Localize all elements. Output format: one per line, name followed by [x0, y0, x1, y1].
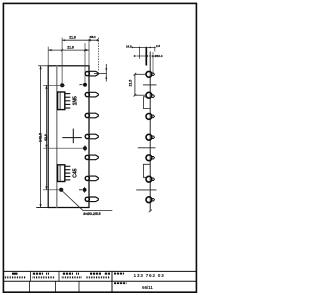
top dim row 1	[62, 39, 99, 41]
title microtext row 1	[12, 273, 110, 275]
extension arms left	[43, 85, 87, 190]
rivet C1	[59, 188, 63, 192]
title microtext row 2 (dotted)	[5, 276, 111, 278]
svg-text:3×Ø3.2/5.5: 3×Ø3.2/5.5	[83, 212, 100, 216]
side circle S1	[146, 71, 155, 77]
side circle S4	[146, 134, 155, 140]
terminal T6	[85, 176, 98, 181]
svg-text:21.8: 21.8	[69, 35, 76, 39]
divider main	[111, 271, 113, 292]
side top dim row 2	[137, 47, 152, 58]
plate bottom edge extended left	[36, 207, 48, 209]
leader to rivet callout	[62, 191, 113, 211]
side thin line to tab	[152, 52, 154, 73]
svg-text:2.3: 2.3	[156, 44, 160, 48]
divider d3	[78, 281, 80, 292]
terminal T7	[85, 197, 98, 202]
svg-text:62.9: 62.9	[44, 134, 48, 141]
part number cell microtext	[114, 273, 125, 275]
side rivet line 1	[143, 84, 157, 86]
left dim B (chained)	[45, 85, 47, 190]
terminal T5	[85, 155, 98, 160]
side circle S5	[146, 155, 155, 161]
terminal T4	[85, 134, 98, 139]
connector X1 box	[58, 92, 65, 110]
rivet C2	[79, 187, 87, 193]
divider d2	[55, 281, 57, 292]
side strip end slash	[149, 210, 152, 213]
svg-text:66/11: 66/11	[142, 285, 153, 290]
lower cell microtext	[114, 282, 127, 284]
side dark band top	[145, 47, 147, 65]
rivet B1	[83, 145, 87, 151]
plate inner bend line (gray)	[56, 66, 58, 208]
connector X1 pins	[65, 94, 71, 108]
divider c2	[58, 271, 60, 281]
side circle S3	[146, 114, 155, 120]
left dim A (overall height)	[38, 66, 50, 208]
terminal T3	[85, 113, 98, 118]
extension lines top	[48, 38, 98, 83]
side top dim row 1	[132, 46, 155, 48]
side plate edge (gray)	[149, 52, 151, 212]
divider d1	[29, 281, 31, 292]
mini vertical dim at terminal T1	[94, 64, 106, 82]
side pitch dim bracket A	[134, 73, 146, 97]
svg-text:14.5: 14.5	[126, 45, 132, 49]
title block mid line	[3, 280, 196, 282]
side rivet line 2	[138, 147, 156, 149]
svg-text:21.5: 21.5	[129, 80, 133, 87]
terminal T2	[85, 92, 98, 97]
connector X2 box	[58, 165, 65, 182]
rivet A1	[60, 83, 64, 87]
title block top line	[3, 270, 196, 272]
side circle S6	[146, 176, 155, 182]
side circle S2	[146, 92, 155, 98]
svg-text:C45: C45	[72, 168, 78, 177]
terminal T1	[85, 71, 98, 76]
plate outline	[48, 66, 89, 208]
side bracket B	[143, 97, 150, 109]
side circle S7	[146, 197, 155, 203]
top dim row 2	[48, 49, 89, 51]
svg-text:1N5: 1N5	[72, 96, 78, 105]
divider c1	[30, 271, 32, 281]
svg-text:21.8: 21.8	[67, 45, 74, 49]
border frame	[3, 3, 196, 292]
svg-text:2·Ø10.4: 2·Ø10.4	[152, 54, 163, 58]
side bracket C	[143, 164, 150, 177]
svg-text:133 762 03: 133 762 03	[133, 273, 164, 279]
connector X2 pins	[65, 166, 71, 180]
side rivet line 3	[136, 189, 156, 191]
center cross mark	[62, 129, 82, 144]
rivet A2	[79, 83, 87, 87]
side edge line top right	[154, 47, 156, 51]
svg-text:142.5: 142.5	[39, 133, 43, 142]
svg-text:Ø8.4: Ø8.4	[90, 35, 97, 39]
